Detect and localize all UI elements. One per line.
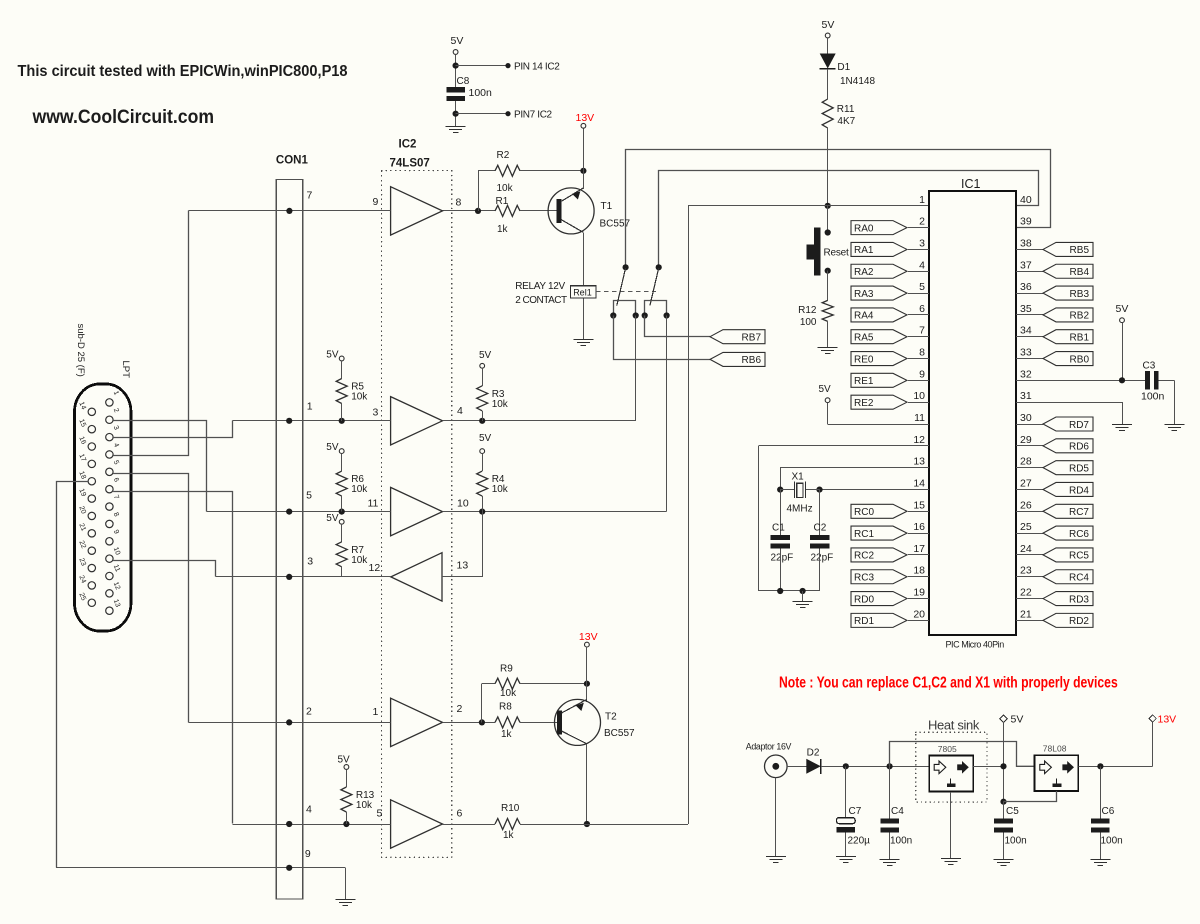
connector pin 8 bbox=[106, 512, 120, 528]
svg-text:11: 11 bbox=[914, 412, 925, 424]
wire buffer13 input link bbox=[442, 512, 483, 577]
svg-text:26: 26 bbox=[1020, 499, 1032, 511]
tag RA2 pin 4 bbox=[851, 259, 929, 278]
resistor R5 10k bbox=[336, 379, 368, 404]
wire T1 collector to relay coil and ground bbox=[583, 232, 585, 339]
svg-text:2: 2 bbox=[112, 407, 120, 413]
svg-text:RE2: RE2 bbox=[854, 398, 874, 409]
svg-text:17: 17 bbox=[77, 453, 86, 463]
resistor R13 10k bbox=[341, 787, 375, 812]
svg-text:10: 10 bbox=[913, 390, 925, 402]
tag RD2 pin 21 bbox=[1016, 608, 1093, 627]
wire LPT pin18 to row 9 bbox=[57, 482, 89, 868]
power 5V terminal (supply) bbox=[1000, 713, 1024, 725]
ground (crystal) bbox=[793, 602, 813, 608]
svg-text:C1: C1 bbox=[772, 523, 785, 534]
capacitor C2 22pF bbox=[810, 523, 833, 564]
wire R11 to pin1 node bbox=[827, 128, 829, 206]
svg-text:40: 40 bbox=[1020, 194, 1032, 206]
svg-text:RA0: RA0 bbox=[854, 223, 874, 234]
svg-text:27: 27 bbox=[1020, 477, 1032, 489]
tag RA3 pin 5 bbox=[851, 281, 929, 300]
wire buffer10 output row bbox=[443, 509, 667, 515]
resistor R9 10k bbox=[495, 664, 520, 699]
heat sink dashed box bbox=[916, 732, 987, 802]
svg-text:4: 4 bbox=[919, 259, 925, 271]
svg-text:35: 35 bbox=[1020, 303, 1032, 315]
wire R8 to T2 base bbox=[520, 722, 557, 724]
wire 5V to R5 bbox=[341, 361, 343, 379]
label CON1 bbox=[276, 155, 309, 167]
svg-text:38: 38 bbox=[1020, 237, 1032, 249]
svg-text:10k: 10k bbox=[356, 800, 373, 811]
tag RC6 pin 25 bbox=[1016, 521, 1093, 540]
wire pin 31 to ground bbox=[1016, 402, 1123, 424]
wire LPT pin6 to row 4 bbox=[113, 492, 232, 824]
tag RD5 pin 28 bbox=[1016, 456, 1093, 475]
svg-text:1k: 1k bbox=[497, 224, 509, 235]
svg-text:C4: C4 bbox=[891, 806, 904, 817]
connector pin 14 bbox=[77, 401, 95, 416]
svg-text:22pF: 22pF bbox=[811, 553, 834, 564]
svg-text:X1: X1 bbox=[792, 472, 805, 483]
wire R9 to 13V rail bbox=[520, 683, 587, 685]
svg-text:RB4: RB4 bbox=[1070, 267, 1090, 278]
resistor R12 100 bbox=[798, 300, 833, 328]
tag RD1 pin 20 bbox=[851, 608, 929, 627]
wire R3 to row bbox=[482, 411, 484, 421]
connector pin 1 bbox=[106, 390, 120, 406]
svg-text:RC0: RC0 bbox=[854, 507, 874, 518]
connector pin 24 bbox=[77, 575, 95, 590]
wire 5V to R7 bbox=[341, 524, 343, 542]
svg-text:9: 9 bbox=[919, 368, 925, 380]
wire pin40 to relay switch 2 bbox=[659, 171, 1039, 268]
svg-text:22: 22 bbox=[1020, 587, 1032, 599]
svg-text:5V: 5V bbox=[326, 442, 339, 453]
svg-text:RELAY 12V: RELAY 12V bbox=[515, 281, 565, 292]
tag RD7 pin 30 bbox=[1016, 412, 1093, 431]
wire 5V node bbox=[1000, 721, 1006, 804]
svg-text:RD2: RD2 bbox=[1069, 616, 1089, 627]
buffer gate 11-10 bbox=[368, 487, 469, 535]
svg-text:2: 2 bbox=[306, 706, 312, 718]
svg-text:RB6: RB6 bbox=[742, 355, 762, 366]
svg-text:22pF: 22pF bbox=[771, 553, 794, 564]
svg-text:220µ: 220µ bbox=[848, 836, 871, 847]
connector pin 5 bbox=[106, 459, 120, 475]
tag RD6 pin 29 bbox=[1016, 434, 1093, 453]
svg-text:29: 29 bbox=[1020, 434, 1032, 446]
tag RC5 pin 24 bbox=[1016, 543, 1093, 562]
wire 13V to T2 emitter bbox=[586, 647, 588, 702]
tag RD4 pin 27 bbox=[1016, 477, 1093, 496]
tag RC1 pin 16 bbox=[851, 521, 929, 540]
svg-text:2 CONTACT: 2 CONTACT bbox=[515, 295, 567, 306]
svg-text:C6: C6 bbox=[1102, 806, 1115, 817]
node PIN7 junction bbox=[453, 111, 459, 117]
wire C4 to ground bbox=[889, 833, 891, 860]
buffer gate 9-8 bbox=[373, 187, 462, 235]
svg-text:5V: 5V bbox=[479, 433, 492, 444]
svg-text:100n: 100n bbox=[1141, 391, 1165, 403]
relay switch 2 terminals bbox=[642, 301, 670, 319]
svg-text:22: 22 bbox=[77, 540, 86, 550]
tag RB0 pin 33 bbox=[1016, 347, 1093, 366]
svg-text:11: 11 bbox=[368, 498, 379, 510]
svg-text:C2: C2 bbox=[814, 523, 827, 534]
wire C6 to ground bbox=[1100, 833, 1102, 860]
wire C5 to ground bbox=[1003, 833, 1005, 860]
ground (C4) bbox=[880, 860, 900, 866]
wire LPT pin5 to row 2 bbox=[113, 474, 188, 723]
wire C2 to rail bbox=[819, 549, 821, 591]
wire 5V to node bbox=[455, 54, 457, 87]
svg-text:R8: R8 bbox=[499, 702, 512, 713]
svg-text:RA2: RA2 bbox=[854, 267, 874, 278]
svg-text:24: 24 bbox=[1020, 543, 1032, 555]
capacitor C7 220u electrolytic bbox=[837, 806, 871, 847]
svg-text:39: 39 bbox=[1020, 216, 1032, 228]
power 13V terminal (supply) bbox=[1149, 714, 1176, 726]
wire pin39 to relay switch 1 bbox=[626, 150, 1051, 268]
svg-text:28: 28 bbox=[1020, 456, 1032, 468]
power 13V terminal (T1) bbox=[576, 112, 595, 128]
tag RB2 pin 35 bbox=[1016, 303, 1093, 322]
svg-text:R2: R2 bbox=[497, 150, 510, 161]
svg-text:17: 17 bbox=[913, 543, 925, 555]
svg-text:RD3: RD3 bbox=[1069, 594, 1089, 605]
svg-text:8: 8 bbox=[919, 347, 925, 359]
svg-text:RD0: RD0 bbox=[854, 594, 874, 605]
svg-text:RA3: RA3 bbox=[854, 289, 874, 300]
svg-text:34: 34 bbox=[1020, 325, 1032, 337]
power 5V terminal (R7) bbox=[326, 513, 344, 524]
junction T1 emitter/R2 bbox=[580, 168, 586, 174]
wire R2 to 13V rail bbox=[520, 170, 583, 172]
wire row 5 (buffer11 input) bbox=[206, 509, 390, 515]
svg-text:Heat sink: Heat sink bbox=[928, 718, 980, 733]
wire pin 32 to C3 bbox=[1016, 377, 1145, 383]
svg-text:9: 9 bbox=[373, 196, 379, 208]
connector pin 3 bbox=[106, 425, 120, 441]
label LPT bbox=[120, 361, 131, 379]
svg-text:16: 16 bbox=[913, 521, 925, 533]
wire row 9 ground link bbox=[56, 865, 346, 900]
connector pin 4 bbox=[106, 442, 120, 458]
svg-text:sub-D 25 (F): sub-D 25 (F) bbox=[75, 324, 86, 377]
website text bbox=[32, 105, 214, 127]
svg-text:RB5: RB5 bbox=[1070, 245, 1090, 256]
tag RA0 pin 2 bbox=[851, 216, 929, 235]
svg-text:4K7: 4K7 bbox=[837, 116, 855, 127]
svg-text:C5: C5 bbox=[1006, 806, 1019, 817]
tag RC0 pin 15 bbox=[851, 499, 929, 518]
ground (C5) bbox=[994, 860, 1014, 866]
svg-text:BC557: BC557 bbox=[604, 728, 635, 739]
svg-text:RA4: RA4 bbox=[854, 311, 874, 322]
wire node up to R9 bbox=[482, 684, 496, 723]
relay actuator dashed link bbox=[596, 291, 656, 293]
resistor R7 10k bbox=[336, 542, 368, 567]
wire row 3 (buffer12 output) bbox=[215, 574, 390, 580]
power 13V terminal (T2) bbox=[579, 631, 598, 647]
svg-text:37: 37 bbox=[1020, 259, 1032, 271]
svg-text:9: 9 bbox=[112, 529, 120, 535]
wire R5 to row bbox=[341, 404, 343, 421]
wire R13 to row bbox=[346, 812, 348, 824]
wire crystal right to C2 bbox=[819, 490, 821, 536]
wire T1 emitter to 13V bbox=[583, 128, 585, 189]
junction pin1/MCLR node bbox=[825, 203, 831, 209]
transistor T1 BC557 bbox=[548, 188, 630, 234]
buffer gate 1-2 bbox=[373, 698, 463, 746]
svg-text:12: 12 bbox=[112, 581, 121, 591]
relay switch 1 contact bbox=[617, 264, 629, 305]
svg-text:RD1: RD1 bbox=[854, 616, 874, 627]
svg-text:4MHz: 4MHz bbox=[787, 504, 813, 515]
svg-text:33: 33 bbox=[1020, 347, 1032, 359]
junction T2 emitter/R9 bbox=[584, 681, 590, 687]
svg-text:BC557: BC557 bbox=[600, 219, 631, 230]
svg-text:10: 10 bbox=[112, 546, 121, 556]
svg-text:RC4: RC4 bbox=[1069, 573, 1089, 584]
connector pin 13 bbox=[106, 598, 121, 614]
regulator 7805 bbox=[929, 744, 973, 791]
ground (pin 31) bbox=[1112, 425, 1132, 431]
diode D2 bbox=[806, 748, 821, 774]
tag RC4 pin 23 bbox=[1016, 565, 1093, 584]
svg-text:Rel1: Rel1 bbox=[573, 288, 592, 298]
svg-text:RA5: RA5 bbox=[854, 333, 874, 344]
wire reset to R12 bbox=[827, 271, 829, 301]
svg-text:3: 3 bbox=[112, 425, 120, 431]
pin 13 wire to crystal bbox=[780, 456, 929, 490]
svg-text:R11: R11 bbox=[837, 104, 855, 115]
svg-text:C3: C3 bbox=[1143, 361, 1156, 372]
svg-text:RB3: RB3 bbox=[1070, 289, 1090, 300]
svg-text:13V: 13V bbox=[1158, 714, 1177, 726]
svg-text:15: 15 bbox=[913, 499, 925, 511]
connector pin 7 bbox=[106, 494, 120, 510]
svg-text:14: 14 bbox=[77, 401, 86, 411]
svg-text:100n: 100n bbox=[890, 836, 912, 847]
svg-text:23: 23 bbox=[1020, 565, 1032, 577]
wire R7 to row bbox=[341, 567, 343, 577]
svg-text:19: 19 bbox=[77, 488, 86, 498]
svg-text:1k: 1k bbox=[501, 729, 513, 740]
wire LPT pin2 to row 5 bbox=[113, 421, 206, 512]
svg-text:RC5: RC5 bbox=[1069, 551, 1089, 562]
svg-text:100n: 100n bbox=[1005, 836, 1027, 847]
svg-text:RC6: RC6 bbox=[1069, 529, 1089, 540]
ground (jack) bbox=[766, 857, 786, 863]
svg-text:13: 13 bbox=[112, 598, 121, 608]
svg-text:R9: R9 bbox=[500, 664, 513, 675]
svg-text:5V: 5V bbox=[451, 35, 464, 47]
wire C7 to ground bbox=[845, 833, 847, 857]
push button Reset bbox=[806, 228, 849, 276]
svg-text:RE0: RE0 bbox=[854, 354, 874, 365]
relay switch 2 contact bbox=[650, 264, 662, 305]
tag RC7 pin 26 bbox=[1016, 499, 1093, 518]
svg-text:20: 20 bbox=[77, 505, 86, 515]
svg-text:4: 4 bbox=[306, 804, 312, 816]
wire C4 branch bbox=[889, 766, 891, 818]
junction T2 collector node bbox=[584, 821, 590, 827]
tag RD3 pin 22 bbox=[1016, 587, 1093, 606]
capacitor C6 100n bbox=[1091, 806, 1123, 847]
svg-text:36: 36 bbox=[1020, 281, 1032, 293]
svg-text:PIC Micro 40Pin: PIC Micro 40Pin bbox=[946, 640, 1005, 650]
svg-text:74LS07: 74LS07 bbox=[390, 158, 430, 170]
svg-text:5V: 5V bbox=[326, 513, 339, 524]
svg-text:10k: 10k bbox=[500, 688, 517, 699]
junction R1/R2 node bbox=[475, 208, 481, 214]
svg-text:10k: 10k bbox=[497, 183, 514, 194]
capacitor C8 bbox=[446, 76, 492, 101]
label Adaptor 16V bbox=[746, 742, 792, 752]
svg-text:11: 11 bbox=[112, 564, 121, 573]
wire LPT pin3 to row 1 bbox=[113, 421, 232, 438]
svg-text:RC2: RC2 bbox=[854, 551, 874, 562]
svg-text:1: 1 bbox=[307, 401, 313, 413]
svg-text:5V: 5V bbox=[822, 19, 835, 31]
svg-text:10k: 10k bbox=[492, 484, 509, 495]
tag RC3 pin 18 bbox=[851, 565, 929, 584]
svg-text:15: 15 bbox=[77, 418, 86, 428]
wire LPT pin10 to row 3 bbox=[113, 561, 215, 577]
wire D1 to R11 bbox=[827, 69, 829, 99]
node PIN14 junction bbox=[453, 63, 459, 69]
wire D2 to 7805 bbox=[821, 763, 929, 769]
wire node up to R2 bbox=[478, 171, 495, 211]
svg-text:20: 20 bbox=[913, 608, 925, 620]
wire 5V to pin32 row bbox=[1122, 323, 1124, 381]
svg-text:R1: R1 bbox=[496, 196, 509, 207]
svg-text:5: 5 bbox=[112, 459, 120, 465]
buffer gate 3-4 bbox=[373, 397, 464, 445]
svg-text:RD4: RD4 bbox=[1069, 485, 1089, 496]
connector pin 10 bbox=[106, 546, 121, 562]
wire C3 to ground bbox=[1159, 380, 1175, 424]
title text bbox=[18, 63, 348, 80]
svg-text:RD6: RD6 bbox=[1069, 442, 1089, 453]
svg-text:RE1: RE1 bbox=[854, 376, 874, 387]
svg-text:RC1: RC1 bbox=[854, 529, 874, 540]
svg-text:10k: 10k bbox=[351, 484, 368, 495]
wire pin1 row bbox=[688, 205, 929, 207]
wire node to reset switch bbox=[827, 206, 829, 233]
connector pin 20 bbox=[77, 505, 95, 520]
svg-text:CON1: CON1 bbox=[276, 155, 309, 167]
resistor R8 1k bbox=[495, 702, 520, 741]
wire C1 to rail bbox=[780, 549, 782, 591]
svg-text:100n: 100n bbox=[1101, 836, 1123, 847]
svg-text:T2: T2 bbox=[605, 712, 617, 723]
wire R4 to row bbox=[482, 496, 484, 512]
wire jack to ground bbox=[775, 778, 777, 857]
svg-text:LPT: LPT bbox=[120, 361, 131, 379]
connector pin 22 bbox=[77, 540, 95, 555]
note text (red) bbox=[779, 673, 1118, 691]
resistor R4 10k bbox=[477, 471, 509, 496]
svg-text:24: 24 bbox=[77, 575, 86, 585]
svg-text:4: 4 bbox=[112, 442, 120, 448]
connector pin 2 bbox=[106, 407, 120, 423]
connector pin 9 bbox=[106, 529, 120, 545]
svg-text:RD5: RD5 bbox=[1069, 463, 1089, 474]
svg-text:RB2: RB2 bbox=[1070, 311, 1090, 322]
resistor R10 1k bbox=[495, 803, 520, 841]
svg-text:32: 32 bbox=[1020, 368, 1032, 380]
wire R1 to T1 base bbox=[520, 210, 556, 212]
crystal X1 4MHz bbox=[780, 472, 819, 515]
wire C7 branch bbox=[845, 766, 847, 817]
svg-text:RB7: RB7 bbox=[742, 333, 762, 344]
svg-text:25: 25 bbox=[77, 592, 86, 602]
wire row 4 (buffer5 input) bbox=[232, 821, 390, 827]
IC2 74LS07 dashed outline bbox=[382, 171, 452, 858]
svg-text:1N4148: 1N4148 bbox=[840, 76, 875, 87]
ground (C6) bbox=[1090, 860, 1110, 866]
power 5V terminal (R13) bbox=[338, 755, 351, 770]
wire switch2 right terminal to buffer10 output bbox=[666, 316, 668, 512]
IC U1 PIC microcontroller IC1 box bbox=[929, 191, 1016, 635]
wire 7805 output to 5V node bbox=[973, 766, 1004, 768]
svg-text:5: 5 bbox=[919, 281, 925, 293]
svg-text:7805: 7805 bbox=[938, 744, 957, 754]
svg-text:RD7: RD7 bbox=[1069, 420, 1089, 431]
ground (row 9) bbox=[335, 900, 355, 906]
tag RA5 pin 7 bbox=[851, 325, 929, 344]
svg-text:21: 21 bbox=[77, 522, 86, 532]
svg-text:8: 8 bbox=[112, 512, 120, 518]
power 5V terminal (C3) bbox=[1116, 303, 1129, 323]
svg-text:Adaptor 16V: Adaptor 16V bbox=[746, 742, 792, 752]
wire LPT pin4 to row 7 bbox=[113, 211, 188, 456]
ground (C7) bbox=[836, 857, 856, 863]
resistor R1 1k bbox=[495, 196, 520, 235]
svg-text:5V: 5V bbox=[1011, 713, 1024, 725]
svg-text:1: 1 bbox=[373, 706, 379, 718]
svg-text:C8: C8 bbox=[457, 76, 470, 87]
wire 5V to R3 bbox=[482, 368, 484, 386]
svg-text:D1: D1 bbox=[837, 62, 850, 73]
svg-text:T1: T1 bbox=[601, 201, 613, 212]
power 5V terminal (R4) bbox=[479, 433, 492, 454]
svg-text:19: 19 bbox=[913, 587, 925, 599]
svg-text:3: 3 bbox=[373, 407, 379, 419]
power 5V terminal (D1 column) bbox=[822, 19, 835, 38]
capacitor C4 100n bbox=[880, 806, 912, 847]
wire buffer8 output bbox=[443, 210, 496, 212]
relay coil Rel1 bbox=[571, 286, 596, 298]
svg-text:Reset: Reset bbox=[824, 248, 850, 259]
svg-text:8: 8 bbox=[456, 197, 462, 209]
svg-text:78L08: 78L08 bbox=[1043, 744, 1067, 754]
wire buffer4 output row bbox=[443, 418, 636, 424]
connector pin 21 bbox=[77, 522, 95, 537]
svg-text:100n: 100n bbox=[469, 87, 493, 99]
power 5V terminal (R3) bbox=[479, 350, 492, 368]
svg-text:23: 23 bbox=[77, 557, 86, 567]
tag RE2 pin 10 bbox=[851, 390, 929, 409]
svg-text:5V: 5V bbox=[1116, 303, 1129, 315]
svg-text:3: 3 bbox=[919, 237, 925, 249]
svg-text:2: 2 bbox=[919, 216, 925, 228]
label Heat sink bbox=[928, 718, 980, 733]
